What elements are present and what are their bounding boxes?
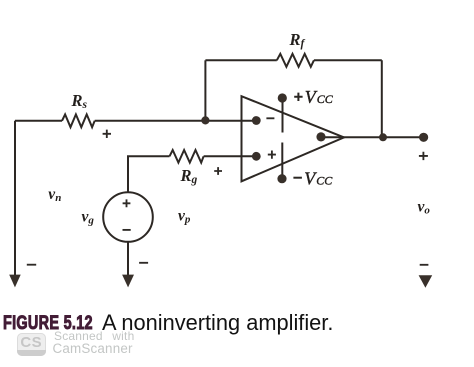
wire: -VCC pin line bbox=[281, 143, 283, 175]
wire: vg bottom lead bbox=[127, 242, 129, 275]
svg-text:Rg: Rg bbox=[180, 166, 198, 186]
pin dot: inverting input bbox=[252, 116, 261, 125]
svg-text:Rf: Rf bbox=[289, 30, 306, 50]
sign - right ground bbox=[420, 264, 429, 266]
ground arrow left bbox=[9, 275, 21, 288]
label -VCC bbox=[293, 169, 333, 189]
sign + inside vg source bbox=[123, 199, 131, 207]
watermark CS box bbox=[17, 333, 47, 357]
sign - inside op-amp inverting bbox=[266, 117, 274, 119]
sign + near Rg bbox=[214, 167, 222, 175]
wire: +VCC pin line bbox=[282, 103, 284, 133]
svg-text:vg: vg bbox=[82, 209, 95, 227]
wire: feedback top-left segment bbox=[205, 59, 276, 61]
svg-text:Rs: Rs bbox=[71, 91, 88, 111]
svg-text:vo: vo bbox=[418, 199, 431, 217]
watermark Scanned with bbox=[54, 330, 134, 342]
ground marker right bbox=[419, 275, 433, 288]
svg-text:CC: CC bbox=[317, 92, 334, 106]
pin dot: noninverting input bbox=[252, 152, 261, 161]
caption: A noninverting amplifier. bbox=[102, 312, 333, 334]
node: output junction dot bbox=[379, 133, 387, 141]
resistor Rf bbox=[277, 54, 314, 67]
sign + near Rs bbox=[103, 130, 111, 138]
wire: feedback top-right segment bbox=[314, 59, 382, 61]
wire: Rg to noninverting input bbox=[204, 155, 257, 157]
wire: left input to Rs bbox=[15, 120, 62, 122]
pin dot: -VCC terminal bbox=[277, 174, 286, 183]
sign + at output terminal bbox=[419, 152, 428, 160]
terminal dot: vo bbox=[419, 133, 428, 142]
svg-text:vn: vn bbox=[48, 186, 61, 204]
ground arrow under vg bbox=[122, 275, 134, 288]
voltage source vg circle bbox=[103, 192, 153, 242]
resistor Rg bbox=[170, 150, 204, 163]
wire: left ground lead bbox=[14, 121, 16, 275]
wire: feedback left vertical bbox=[204, 60, 206, 121]
sign - vg ground bbox=[139, 262, 148, 264]
resistor Rs bbox=[62, 114, 95, 127]
wire: feedback right vertical bbox=[381, 60, 383, 137]
sign + inside op-amp noninverting bbox=[268, 151, 276, 159]
wire: output bbox=[321, 136, 424, 138]
label +VCC bbox=[294, 87, 334, 107]
pin dot: output bbox=[316, 132, 325, 141]
wire: Rs to inverting input bbox=[95, 120, 257, 122]
op-amp U1 triangle bbox=[242, 96, 345, 181]
sign - left ground bbox=[27, 264, 36, 266]
wire: vg top lead bbox=[128, 156, 170, 192]
pin dot: +VCC terminal bbox=[278, 93, 287, 102]
sign - inside vg source bbox=[123, 229, 131, 231]
caption: FIGURE 5.12 bbox=[3, 314, 93, 334]
svg-text:vp: vp bbox=[178, 208, 191, 226]
watermark CamScanner bbox=[53, 342, 133, 355]
svg-text:CC: CC bbox=[316, 174, 333, 188]
node: inverting junction dot bbox=[201, 116, 209, 124]
